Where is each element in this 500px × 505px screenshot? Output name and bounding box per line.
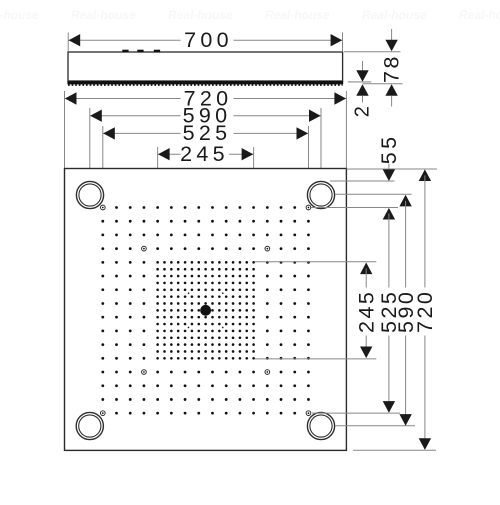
- svg-text:Real-house: Real-house: [362, 8, 427, 22]
- dimension 55 line and arrow: [388, 164, 390, 170]
- inner circled nozzle top-right: [265, 246, 270, 251]
- spray plate (thick bottom face): [67, 81, 343, 84]
- svg-text:55: 55: [377, 133, 401, 164]
- svg-text:Real-house: Real-house: [71, 8, 136, 22]
- dimension 245 line: [158, 153, 181, 155]
- sparse nozzle dot grid: [101, 206, 309, 414]
- leader from top-right corner jet centre: [335, 193, 412, 195]
- corner jet circle top-left: [76, 181, 103, 208]
- dimension 525 line: [103, 132, 181, 134]
- shower head body (side view): [68, 52, 343, 81]
- dimension 590 right line and arrows: [399, 195, 411, 207]
- leader from corner jet top tangent: [330, 180, 395, 182]
- dimension 78 reference lines: [344, 51, 401, 53]
- nozzle ticks under spray plate: [68, 84, 343, 86]
- leader from dense grid top row: [255, 261, 376, 263]
- top edge extension line (right): [347, 168, 438, 170]
- svg-text:700: 700: [184, 28, 233, 52]
- central large nozzle: [200, 305, 211, 316]
- leader from dense grid bottom row: [255, 358, 376, 360]
- dimension 590 extension lines: [89, 108, 91, 181]
- leader from top-right circled nozzle: [311, 207, 398, 209]
- four small diagonal nozzles: [188, 292, 190, 294]
- svg-text:Real-house: Real-house: [0, 8, 39, 22]
- dimension 78 line and arrows: [391, 29, 393, 40]
- corner jet circle top-right: [307, 181, 334, 208]
- dimension 2 line and arrows: [362, 61, 364, 70]
- svg-text:Real-house: Real-house: [168, 8, 233, 22]
- corner circled nozzle bottom-left: [100, 411, 105, 416]
- dimension 525 extension lines: [102, 126, 104, 204]
- svg-text:720: 720: [413, 290, 437, 333]
- leader from bottom-right circled nozzle: [312, 412, 400, 414]
- dimension 525 arrows: [103, 127, 115, 139]
- dimension 720 right line and arrows: [419, 169, 431, 181]
- dimension 720 extension lines: [64, 91, 66, 169]
- dimension 720 line: [65, 98, 181, 100]
- corner jet circle bottom-right: [307, 412, 334, 439]
- svg-text:245: 245: [180, 142, 229, 166]
- inner circled nozzle top-left: [142, 246, 147, 251]
- dimension 700 arrows: [69, 34, 81, 46]
- svg-text:78: 78: [380, 54, 404, 83]
- shower head plate (plan view, 720x720): [65, 169, 347, 451]
- svg-text:Real-house: Real-house: [459, 8, 500, 22]
- dimension 700 extension lines: [67, 33, 69, 52]
- dimension 590 arrows: [90, 110, 102, 122]
- bottom edge extension line (right): [353, 449, 436, 451]
- inlet nubs on top of body: [122, 50, 128, 52]
- inner circled nozzle bottom-left: [142, 370, 147, 375]
- dimension 700 line: [68, 39, 180, 41]
- dimension 590 line: [90, 115, 181, 117]
- corner jet circle bottom-left: [76, 412, 103, 439]
- svg-text:Real-house: Real-house: [265, 8, 330, 22]
- dimension 245 arrows (outward): [158, 148, 170, 160]
- dimension 245 right line and arrows: [360, 263, 372, 275]
- corner circled nozzle top-left: [100, 205, 105, 210]
- corner circled nozzle top-right: [306, 205, 311, 210]
- leader from bottom-right corner jet centre: [335, 425, 415, 427]
- svg-text:245: 245: [354, 290, 378, 333]
- dimension 525 right line and arrows: [383, 208, 395, 220]
- corner circled nozzle bottom-right: [306, 411, 311, 416]
- dimension 2 reference line: [348, 81, 371, 83]
- dimension 720 arrows: [65, 92, 77, 104]
- inner circled nozzle bottom-right: [265, 370, 270, 375]
- dimension 245 extension lines: [157, 147, 159, 261]
- svg-text:2: 2: [352, 102, 374, 117]
- dense central nozzle dot grid (245x245): [156, 261, 255, 360]
